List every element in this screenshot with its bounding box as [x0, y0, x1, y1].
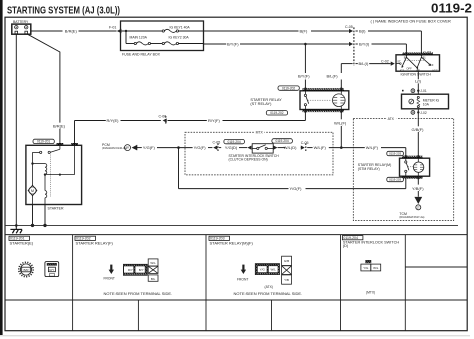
svg-text:R/Y: R/Y — [128, 268, 133, 272]
svg-text:STARTING SYSTEM (AJ (3.0L)): STARTING SYSTEM (AJ (3.0L)) — [7, 5, 120, 16]
label 0119-204 right — [272, 139, 293, 143]
svg-text:ACC: ACC — [432, 68, 438, 72]
note seen from terminal side col3 — [234, 291, 303, 296]
svg-text:G/B(F): G/B(F) — [412, 127, 425, 132]
svg-text:OFF: OFF — [406, 66, 412, 70]
svg-text:B/R(E): B/R(E) — [53, 123, 66, 128]
svg-text:R/Y(E): R/Y(E) — [107, 118, 120, 123]
svg-text:(MTX): (MTX) — [366, 290, 375, 294]
svg-text:(DIAGRAM 0617-2a): (DIAGRAM 0617-2a) — [399, 215, 424, 219]
svg-text:Y/B: Y/B — [284, 278, 289, 282]
table bottom-row divider A — [137, 300, 139, 331]
starter motor M — [28, 152, 37, 204]
wire B inside fuse box — [121, 30, 162, 44]
svg-text:FRONT: FRONT — [104, 277, 115, 281]
svg-text:W/L(D): W/L(D) — [284, 145, 297, 150]
wire Y/G(D) to interlock switch — [219, 145, 252, 150]
svg-text:B/Y: B/Y — [139, 268, 144, 272]
MTX dashed box — [185, 130, 333, 175]
joint connector J-01 — [402, 89, 427, 93]
connector view interlock switch — [361, 260, 381, 271]
ground bus — [5, 224, 458, 227]
wire battery negative to ground bus — [15, 34, 17, 226]
svg-text:0119-202: 0119-202 — [270, 111, 283, 115]
starter relay M STM relay — [358, 155, 430, 179]
table row divider — [5, 299, 467, 301]
label 0119-203 lower — [387, 177, 404, 181]
node B/Y branch junction — [304, 43, 307, 46]
svg-text:STARTER INTERLOCK SWITCH: STARTER INTERLOCK SWITCH — [343, 240, 399, 244]
svg-text:0119-204: 0119-204 — [275, 139, 288, 143]
svg-text:G/B: G/B — [284, 259, 289, 263]
ground symbol — [10, 225, 22, 233]
starter magnetic switch contact — [33, 145, 60, 153]
svg-text:W/L(F): W/L(F) — [334, 120, 347, 125]
front arrow col2 — [104, 265, 115, 281]
svg-text:STARTER RELAY(M)(F): STARTER RELAY(M)(F) — [210, 240, 254, 245]
wire Y/G(F) branch to STM relay contact — [179, 148, 406, 192]
svg-text:BATTERY: BATTERY — [13, 20, 29, 24]
wire starter motor to ground bus — [32, 205, 34, 226]
svg-text:0119-2: 0119-2 — [431, 0, 472, 15]
fuse IG KEY1 40A — [162, 26, 190, 33]
label 0119-202 upper — [278, 86, 299, 90]
connector C-06 — [159, 114, 167, 125]
wire B/L(I)/B/L(F) ignition ST to starter relay coil — [327, 59, 395, 91]
ATX dashed box — [353, 116, 453, 220]
table top border — [5, 234, 467, 236]
table header 0119-202 STARTER RELAY(F) — [75, 236, 114, 245]
starter pull-in coil — [33, 164, 47, 175]
svg-text:Y/G(F): Y/G(F) — [143, 145, 156, 150]
label 0119-202 lower — [266, 111, 287, 115]
svg-text:0119-203: 0119-203 — [389, 152, 401, 156]
fuse METER IG 10A — [402, 94, 449, 109]
wire W/L(F) to STM relay — [307, 145, 406, 158]
svg-text:STARTER: STARTER — [48, 206, 64, 210]
svg-text:(ST RELAY): (ST RELAY) — [250, 101, 272, 106]
starter plunger dashed link — [49, 155, 51, 198]
wire B/Y(F) junction down to starter relay — [298, 44, 310, 91]
note MTX col4 — [366, 290, 375, 294]
svg-text:2R: 2R — [126, 148, 129, 150]
svg-text:W/L: W/L — [373, 266, 379, 270]
svg-text:F-01: F-01 — [109, 25, 116, 29]
svg-text:TCM: TCM — [399, 212, 407, 216]
svg-text:NOTE:SEEN FROM TERMINAL SIDE.: NOTE:SEEN FROM TERMINAL SIDE. — [104, 291, 173, 296]
svg-text:NOTE:SEEN FROM TERMINAL SIDE.: NOTE:SEEN FROM TERMINAL SIDE. — [234, 291, 303, 296]
svg-text:B/Y(F): B/Y(F) — [298, 74, 310, 79]
svg-text:( ) NAME INDICATED ON FUSE BOX: ( ) NAME INDICATED ON FUSE BOX COVER — [371, 18, 452, 23]
joint connector J-02 — [411, 109, 427, 118]
wire Y/B(F) STM relay to TCM — [412, 179, 424, 197]
battery — [12, 20, 31, 34]
svg-text:Y/G: Y/G — [363, 266, 369, 270]
svg-text:C-06: C-06 — [159, 114, 167, 118]
connector view B/R round — [19, 262, 33, 276]
svg-text:B/L(I): B/L(I) — [359, 61, 369, 66]
wire G/B(F) to STM relay coil — [412, 118, 425, 158]
node Y/G branch junction — [177, 146, 180, 149]
svg-text:Y/G(F): Y/G(F) — [194, 145, 207, 150]
wire B(F)/B(I) fuse box to ignition switch — [204, 29, 422, 55]
svg-text:MAIN 120A: MAIN 120A — [130, 35, 148, 39]
note: name indicated on fuse box cover — [371, 18, 452, 23]
svg-text:IGNITION SWITCH: IGNITION SWITCH — [401, 73, 432, 77]
svg-text:FUSE AND RELAY BOX: FUSE AND RELAY BOX — [122, 52, 161, 56]
ignition switch U1 — [396, 51, 440, 77]
svg-text:R/Y: R/Y — [49, 268, 54, 272]
svg-text:W/L: W/L — [271, 268, 277, 272]
svg-text:B/Y(I): B/Y(I) — [359, 42, 370, 47]
wire starter coil to ground bus — [44, 205, 46, 226]
wire L(I) ignition switch to meter fuse — [415, 71, 422, 94]
svg-text:L(I): L(I) — [415, 79, 422, 84]
table header 0119-204 STARTER INTERLOCK SWITCH (D) — [342, 236, 399, 249]
connector C-05 bar — [345, 25, 354, 66]
svg-text:B(I): B(I) — [359, 29, 366, 34]
svg-text:STARTER(E): STARTER(E) — [10, 240, 34, 245]
wire W/L(F) relay coil down to interlock net — [334, 112, 347, 148]
svg-text:B/R: B/R — [23, 268, 29, 272]
svg-text:OFF: OFF — [428, 63, 434, 67]
svg-text:J-02: J-02 — [420, 111, 427, 115]
svg-text:C-02: C-02 — [423, 51, 431, 55]
svg-text:B/Y(F): B/Y(F) — [227, 42, 239, 47]
table column divider 1 — [72, 235, 74, 331]
page number 0119-2 — [431, 0, 472, 15]
starter relay ST relay — [250, 87, 348, 113]
svg-text:0119-203: 0119-203 — [389, 178, 401, 182]
svg-text:J-01: J-01 — [420, 89, 427, 93]
table bottom-row divider B — [271, 300, 273, 331]
svg-text:B(F): B(F) — [300, 29, 308, 34]
svg-text:W/L(F): W/L(F) — [366, 145, 379, 150]
front arrow col3 — [237, 265, 248, 282]
svg-text:Y/G(F): Y/G(F) — [290, 186, 303, 191]
title STARTING SYSTEM (AJ (3.0L)) — [7, 5, 120, 16]
svg-text:0119-204: 0119-204 — [227, 140, 240, 144]
fuse and relay box — [121, 21, 204, 56]
table column divider 3 — [340, 235, 342, 331]
wire battery positive diagonal to starter — [27, 34, 66, 146]
svg-text:(CLUTCH DEPRESS ON): (CLUTCH DEPRESS ON) — [229, 158, 268, 162]
svg-text:(ATX): (ATX) — [265, 285, 273, 289]
connector view starter relay M F — [255, 256, 291, 284]
svg-text:MTX: MTX — [256, 130, 264, 134]
svg-text:(DIAGRAM 0140-3a): (DIAGRAM 0140-3a) — [102, 146, 127, 150]
connector view R/Y square — [45, 262, 59, 277]
svg-text:STARTER RELAY(F): STARTER RELAY(F) — [76, 240, 114, 245]
svg-text:IG KEY2 30A: IG KEY2 30A — [169, 35, 190, 39]
fuse MAIN 120A — [130, 35, 163, 45]
svg-text:ST: ST — [397, 59, 401, 63]
starter — [26, 143, 82, 210]
svg-text:B/L(F): B/L(F) — [327, 74, 339, 79]
fuse IG KEY2 30A — [162, 31, 203, 45]
svg-text:(D): (D) — [343, 244, 349, 248]
label 0119-204 left — [224, 139, 245, 143]
svg-text:B/L: B/L — [151, 277, 156, 281]
note seen from terminal side col2 — [104, 291, 173, 296]
svg-text:ATX: ATX — [388, 117, 395, 121]
starter switch feed link — [46, 145, 74, 175]
svg-text:Y/G: Y/G — [260, 268, 266, 272]
svg-text:W/L: W/L — [150, 261, 156, 265]
note ATX col3 — [265, 285, 273, 289]
svg-text:W/L(F): W/L(F) — [314, 145, 327, 150]
svg-text:C-02: C-02 — [381, 59, 389, 63]
table header 0119-203 STARTER RELAY(M)(F) — [209, 236, 254, 245]
wire B/R(E) battery to F-01 — [31, 29, 117, 34]
wire R/Y(E)/R/Y(F) starter to relay contact — [75, 112, 306, 145]
svg-text:C-05: C-05 — [301, 141, 309, 145]
wire B/Y(F)/B/Y(I) fuse box to ignition switch — [204, 42, 407, 55]
svg-text:B/R(E): B/R(E) — [65, 29, 78, 34]
svg-text:0119-202: 0119-202 — [282, 86, 295, 90]
svg-text:R/Y(F): R/Y(F) — [208, 118, 220, 123]
svg-text:(STM RELAY): (STM RELAY) — [358, 167, 380, 171]
starter interlock switch — [229, 144, 280, 162]
TCM connector — [399, 197, 424, 219]
table header 0119-201 STARTER(E) — [9, 236, 34, 245]
svg-text:IG KEY1 40A: IG KEY1 40A — [170, 26, 191, 30]
node W/L junction — [340, 146, 343, 149]
connector F-01 — [109, 25, 121, 33]
svg-text:Y/G(D): Y/G(D) — [225, 145, 238, 150]
table column divider 2 — [205, 235, 207, 331]
starter hold-in coil — [44, 173, 47, 204]
wire Y/G(F) PCM to C-05 — [137, 140, 220, 152]
connector view starter relay F — [123, 259, 158, 281]
svg-text:Y/B(F): Y/B(F) — [412, 186, 424, 191]
PCM connector — [102, 143, 137, 151]
table column divider 4 — [404, 235, 406, 331]
wire W/L(D) interlock to C-05 — [273, 141, 308, 152]
svg-text:C-05: C-05 — [345, 25, 353, 29]
svg-text:0119-201: 0119-201 — [37, 140, 50, 144]
svg-text:FRONT: FRONT — [237, 278, 248, 282]
svg-text:C-05: C-05 — [213, 140, 221, 144]
svg-text:10A: 10A — [423, 102, 430, 106]
label 0119-203 upper — [387, 151, 404, 155]
table right column divider — [405, 266, 467, 268]
label 0119-201 starter — [33, 139, 54, 143]
svg-text:M: M — [31, 189, 34, 193]
